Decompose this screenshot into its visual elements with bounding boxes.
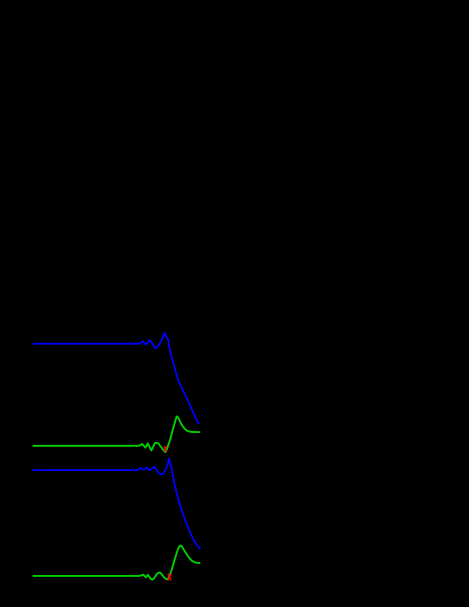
curve green1 (top spectrum, green trace) (33, 417, 199, 453)
curve blue2 (bottom spectrum, blue trace) (33, 458, 200, 548)
marker red x1 (fit point on green1 dip) (164, 447, 166, 451)
curve green2 (bottom spectrum, green trace) (33, 546, 199, 580)
marker red x2 (fit point on green2 dip) (168, 574, 171, 580)
curve blue1 (top spectrum, blue trace) (34, 333, 199, 423)
